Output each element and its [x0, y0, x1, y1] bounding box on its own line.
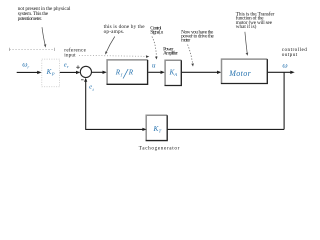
wire KT to riser with arrowhead at KT left edge — [86, 128, 147, 131]
svg-text:Signal, u: Signal, u — [150, 29, 163, 35]
svg-text:motor: motor — [181, 37, 190, 43]
annotation: not present in the physical system — [18, 6, 71, 22]
annotation: reference input — [64, 46, 86, 58]
label omega_r (input) — [22, 59, 29, 69]
label e_r — [64, 61, 69, 69]
label e_t — [89, 83, 94, 92]
dashed pointer from Control Signal — [152, 37, 158, 60]
wire Motor to output arrow — [268, 71, 295, 74]
block KA (power amplifier) — [165, 60, 182, 85]
minus sign at summing junction — [81, 79, 84, 81]
svg-text:Amplifier: Amplifier — [163, 50, 178, 57]
annotation: Power Amplifier — [163, 46, 178, 56]
wire summing junction to Rf/R block — [92, 71, 107, 74]
dashed pointer: reference input — [79, 55, 149, 58]
pointer arrow from potentiometer note — [42, 27, 46, 47]
wire Rf/R to KA — [148, 71, 165, 74]
svg-text:input: input — [64, 52, 76, 58]
block Kp (potentiometer, dashed) — [42, 59, 60, 87]
annotation: Now you have the power to drive the motor — [181, 30, 214, 44]
wire KA to Motor — [182, 71, 222, 74]
wire Kp to summing junction — [60, 71, 81, 74]
svg-text:r: r — [67, 64, 69, 69]
block Rf/R (op-amp gain) — [107, 60, 148, 84]
block KT (tachogenerator) — [146, 115, 168, 140]
wire feedback to KT — [167, 128, 284, 130]
svg-text:op-amps.: op-amps. — [104, 29, 125, 35]
block Motor — [221, 59, 267, 83]
annotation: Control Signal, u — [150, 25, 163, 35]
svg-text:r: r — [27, 65, 29, 70]
annotation: This is the Transfer function of the motor — [236, 11, 275, 31]
wire feedback branch down — [283, 72, 285, 129]
dashed span marker over Kp — [10, 48, 55, 51]
svg-text:output: output — [282, 52, 298, 58]
pointer from op-amps note — [105, 37, 115, 55]
summing junction — [80, 66, 91, 77]
svg-text:R: R — [128, 68, 134, 76]
plus sign at summing junction — [76, 65, 80, 69]
svg-text:P: P — [51, 72, 55, 77]
annotation: controlled output — [282, 47, 308, 58]
svg-text:Tachogenerator: Tachogenerator — [139, 146, 180, 152]
wire riser up to summing junction — [84, 78, 87, 130]
svg-text:K: K — [46, 68, 52, 76]
svg-text:what it is): what it is) — [236, 23, 257, 30]
svg-text:A: A — [173, 72, 177, 77]
svg-text:ω: ω — [282, 61, 287, 70]
wire input arrow — [17, 71, 42, 74]
svg-text:potentiometer.: potentiometer. — [18, 16, 42, 22]
svg-text:u: u — [152, 62, 156, 70]
svg-text:T: T — [159, 128, 162, 133]
annotation: this is done by the op-amps — [104, 24, 146, 35]
dashed pointer from Now-you-have note — [188, 45, 194, 67]
pointer from Transfer-function note — [245, 32, 248, 56]
svg-text:Motor: Motor — [228, 69, 251, 78]
